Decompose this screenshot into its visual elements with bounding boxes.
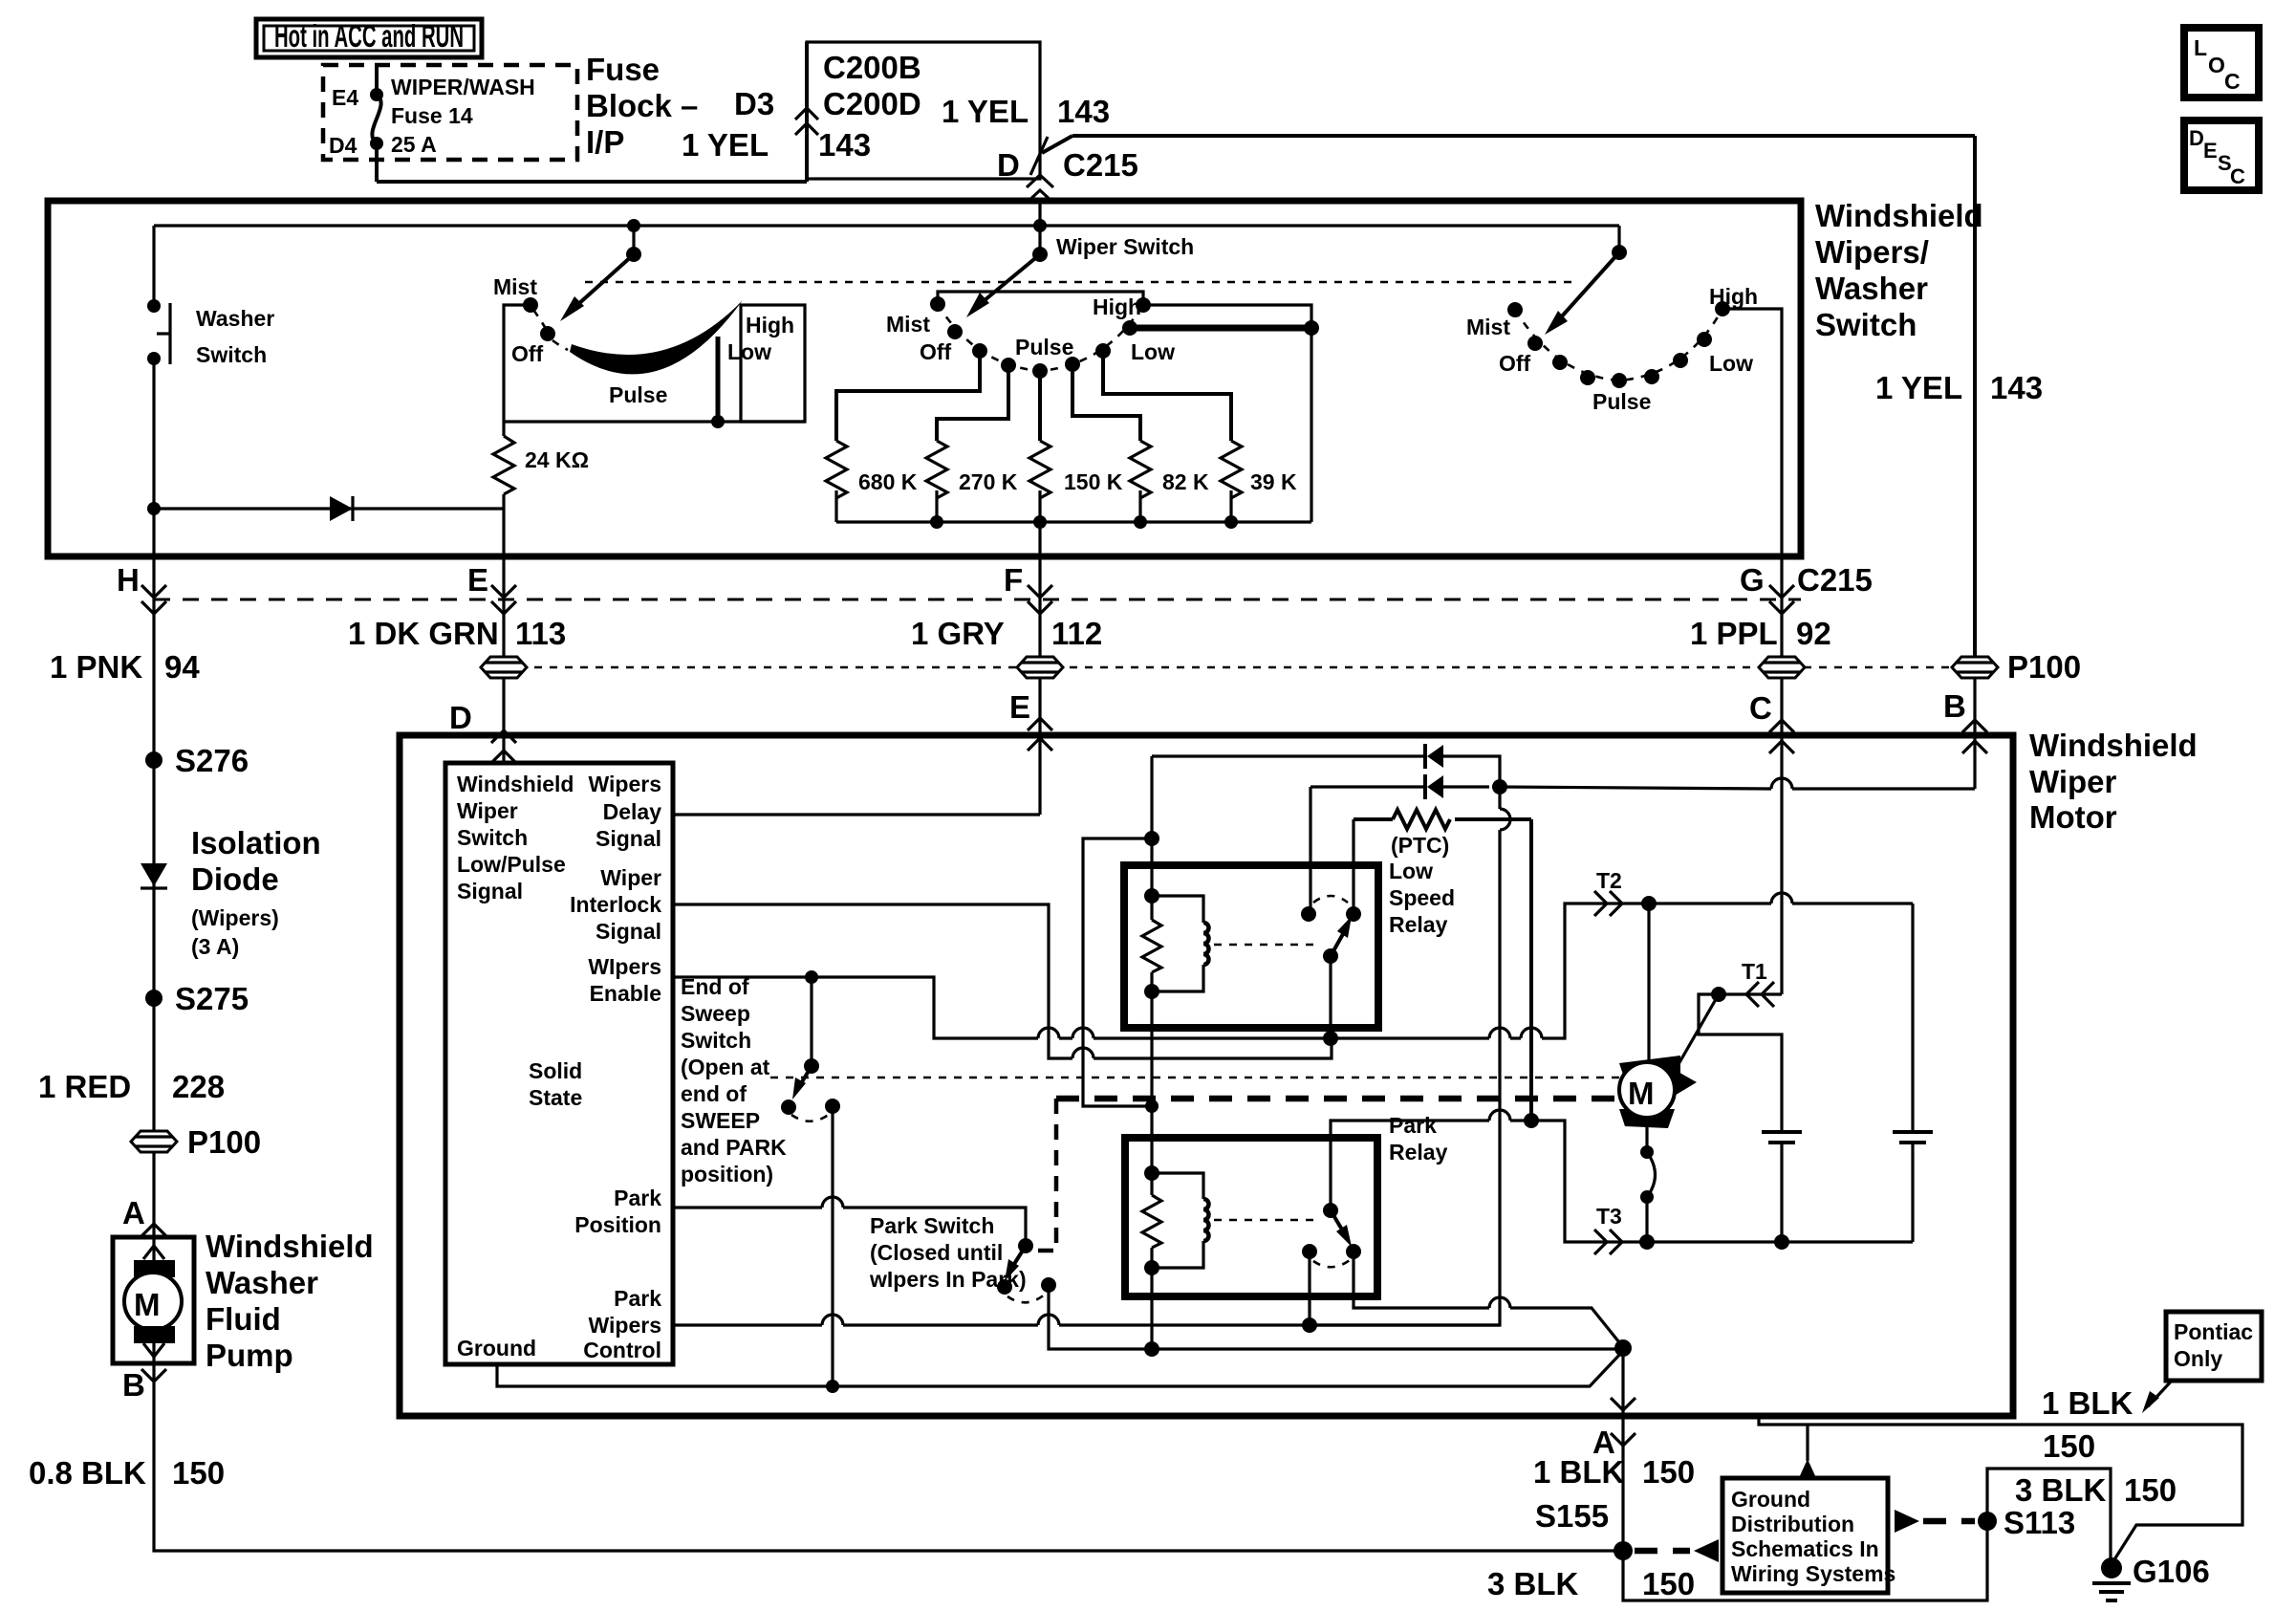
label T1 <box>1742 959 1774 1007</box>
wire Low contact switch1 <box>716 337 721 422</box>
label A pump <box>122 1195 166 1236</box>
svg-text:D: D <box>2189 126 2204 150</box>
svg-text:Mist: Mist <box>493 274 537 299</box>
arrow pontiac only <box>2142 1381 2172 1413</box>
inline connector on G wire <box>1759 657 1805 678</box>
LOC box <box>2184 28 2259 98</box>
svg-text:Relay: Relay <box>1389 912 1448 937</box>
svg-text:B: B <box>122 1367 145 1403</box>
node A bundle junction <box>1614 1339 1632 1357</box>
wire Mist-High link switch2 <box>938 292 1143 305</box>
node ground sweep junction <box>826 1380 839 1393</box>
wire S155 dashed to ground distribution <box>1635 1548 1690 1555</box>
svg-text:Wipers: Wipers <box>589 1313 661 1338</box>
svg-text:end of: end of <box>681 1081 747 1106</box>
park relay switch <box>1302 1203 1361 1267</box>
svg-text:1 BLK: 1 BLK <box>2042 1385 2134 1421</box>
label Windshield Washer Fluid Pump <box>206 1229 374 1373</box>
svg-text:Speed: Speed <box>1389 885 1455 910</box>
connector C215 dashed line <box>154 599 1801 601</box>
svg-text:Solid: Solid <box>529 1058 582 1083</box>
wire wipers enable <box>673 977 1331 1038</box>
node diode junction B feed <box>1492 779 1507 795</box>
resistor PTC <box>1354 810 1531 858</box>
wire wiper interlock signal <box>673 904 1332 1058</box>
svg-text:High: High <box>746 313 794 337</box>
svg-text:S155: S155 <box>1535 1498 1609 1534</box>
svg-text:S275: S275 <box>175 981 249 1016</box>
svg-text:Interlock: Interlock <box>570 892 661 917</box>
svg-text:C200D: C200D <box>823 86 921 121</box>
wire dashed to S113 <box>1923 1518 1975 1525</box>
svg-text:94: 94 <box>164 649 200 685</box>
label Windshield Wiper Motor <box>2029 728 2198 835</box>
hop control over park contact drop <box>1038 1315 1059 1325</box>
wire park relay NO contact to A bundle <box>1354 1252 1623 1347</box>
label T2 <box>1594 868 1622 916</box>
windshield wipers/washer switch outer box <box>48 201 1801 556</box>
inline connector P100 on B wire <box>1952 649 2081 685</box>
wire motor T2 lead <box>1647 903 1650 1064</box>
wire end of sweep to ground bus <box>831 1106 834 1386</box>
svg-text:143: 143 <box>1057 94 1110 129</box>
svg-text:Park Switch: Park Switch <box>870 1213 994 1238</box>
svg-text:C200B: C200B <box>823 50 921 85</box>
wiper switch 1 arm <box>560 226 641 321</box>
svg-text:1 RED: 1 RED <box>38 1069 131 1104</box>
dashed mechanical link wiper switches <box>585 281 1571 284</box>
svg-text:1 DK GRN: 1 DK GRN <box>348 616 499 651</box>
label low speed relay <box>1389 859 1455 937</box>
resistor 24 Kohm <box>493 422 589 509</box>
svg-text:1 PNK: 1 PNK <box>50 649 142 685</box>
thick pulse crescent switch1 <box>570 300 743 374</box>
node feed junction switch2 <box>1033 219 1047 232</box>
resistor 150K pulse center <box>1029 371 1123 529</box>
svg-text:Wiring Systems: Wiring Systems <box>1731 1561 1895 1586</box>
wire B motor terminal <box>1943 678 1987 789</box>
svg-text:WIPER/WASH: WIPER/WASH <box>391 75 535 99</box>
low speed relay switch <box>1301 896 1361 964</box>
svg-text:Switch: Switch <box>1815 307 1917 342</box>
label 1 YEL 143 at fuse wire <box>682 127 871 163</box>
wire diode2 corner to relay fixed contact <box>1309 787 1311 914</box>
dashed mechanical link motor thin <box>770 1077 1619 1079</box>
svg-text:S276: S276 <box>175 743 249 778</box>
resistor 270K <box>926 365 1018 529</box>
svg-text:E: E <box>467 562 488 598</box>
svg-text:E: E <box>2203 139 2218 163</box>
svg-text:Distribution: Distribution <box>1731 1512 1854 1536</box>
svg-text:State: State <box>529 1085 582 1110</box>
wire pump B to ground bus <box>154 1363 1623 1551</box>
svg-text:Wiper: Wiper <box>2029 764 2117 799</box>
wire T1 line <box>1699 994 1782 1132</box>
wire D into motor box <box>449 678 516 763</box>
svg-text:D: D <box>997 147 1020 183</box>
svg-text:0.8 BLK: 0.8 BLK <box>29 1455 146 1491</box>
svg-text:Washer: Washer <box>196 306 274 331</box>
svg-text:Off: Off <box>1499 351 1531 376</box>
wire G exit <box>1740 556 1873 658</box>
label 1 YEL 143 right side <box>1875 370 2043 405</box>
svg-text:Off: Off <box>920 339 952 364</box>
label park switch <box>869 1213 1027 1292</box>
wire High to right vertical switch2 <box>1143 305 1311 328</box>
svg-text:(Wipers): (Wipers) <box>191 905 279 930</box>
svg-text:Washer: Washer <box>1815 271 1928 306</box>
svg-text:Fluid: Fluid <box>206 1301 281 1337</box>
svg-text:Pulse: Pulse <box>609 382 667 407</box>
wire H exit <box>117 556 166 760</box>
svg-text:Signal: Signal <box>457 879 523 903</box>
svg-text:Switch: Switch <box>196 342 267 367</box>
svg-text:P100: P100 <box>187 1124 261 1160</box>
svg-text:3 BLK: 3 BLK <box>2015 1472 2107 1508</box>
connector arrow D C215 (double chevron up) <box>1027 175 1053 203</box>
svg-text:24 KΩ: 24 KΩ <box>525 447 589 472</box>
svg-text:Windshield: Windshield <box>1815 198 1983 233</box>
svg-text:wIpers In Park): wIpers In Park) <box>869 1267 1027 1292</box>
wire T3 line <box>1531 1121 1913 1242</box>
svg-text:Switch: Switch <box>681 1028 751 1053</box>
svg-text:150: 150 <box>2043 1428 2095 1464</box>
wiper switch 3 arm <box>1545 226 1627 335</box>
wire Mist to bus switch1 <box>504 305 531 422</box>
svg-text:Low: Low <box>1131 339 1175 364</box>
wire relay pivot to T2 node <box>1329 956 1332 1038</box>
wire 24K to E exit <box>502 509 505 556</box>
hop T2 line over B drop <box>1489 1028 1510 1038</box>
svg-text:position): position) <box>681 1162 773 1186</box>
node enable arm tap <box>805 970 818 984</box>
wiper switch 1 Off contact <box>511 326 555 366</box>
wire ground box feed with triangle <box>1798 1425 1817 1480</box>
dashed actuator low speed relay <box>1214 944 1319 947</box>
svg-text:Low: Low <box>1389 859 1433 883</box>
hop enable over coil feed <box>1072 1028 1094 1038</box>
connector C200B C200D box <box>807 42 1040 179</box>
svg-text:O: O <box>2208 53 2225 77</box>
diode interlock feed <box>1310 774 1489 799</box>
label Windshield Wipers/Washer Switch <box>1815 198 1983 342</box>
svg-text:Mist: Mist <box>1466 315 1510 339</box>
svg-text:Washer: Washer <box>206 1265 318 1300</box>
svg-text:150: 150 <box>1642 1566 1695 1601</box>
svg-text:82 K: 82 K <box>1162 469 1209 494</box>
svg-text:Wiper: Wiper <box>600 865 661 890</box>
park relay box <box>1125 1138 1377 1296</box>
label module left column <box>457 772 582 1361</box>
svg-text:150: 150 <box>1642 1454 1695 1490</box>
svg-text:113: 113 <box>515 616 566 651</box>
wire E motor terminal <box>1009 678 1052 815</box>
wire 1 BLK pontiac ground run <box>1759 1416 2242 1564</box>
svg-text:C: C <box>2230 164 2245 188</box>
inline connector on F wire <box>1017 657 1063 678</box>
wire D into switch box <box>1038 201 1041 226</box>
svg-text:C215: C215 <box>1063 147 1138 183</box>
svg-text:Control: Control <box>583 1338 661 1362</box>
hop B feed over C wire <box>1771 778 1792 789</box>
svg-text:Diode: Diode <box>191 861 279 897</box>
svg-text:G106: G106 <box>2133 1554 2210 1589</box>
node T3 motor junction <box>1639 1234 1655 1250</box>
label 1 BLK 150 at A <box>1533 1454 1695 1490</box>
wire S155 to S113 bottom link <box>1623 1521 1987 1600</box>
svg-text:WIpers: WIpers <box>588 954 661 979</box>
svg-text:Fuse: Fuse <box>586 52 660 87</box>
label end of sweep switch <box>681 974 787 1186</box>
wire pulse output to F exit <box>1038 522 1041 556</box>
label 1 PNK 94 <box>50 649 200 685</box>
ground G106 <box>2092 1554 2210 1600</box>
hop pivot feed over B drop <box>1489 1110 1510 1121</box>
svg-text:C215: C215 <box>1797 562 1873 598</box>
node feed junction switch1 <box>627 219 640 232</box>
wire through coils vertical <box>1150 991 1153 1173</box>
wire resistor bottom bus switch2 <box>836 520 1311 523</box>
svg-text:Park: Park <box>614 1286 661 1311</box>
svg-text:G: G <box>1740 562 1765 598</box>
windshield wiper motor box <box>400 735 2013 1416</box>
dashed actuator park relay <box>1214 1219 1319 1222</box>
svg-text:H: H <box>117 562 140 598</box>
svg-text:92: 92 <box>1796 616 1831 651</box>
svg-text:Signal: Signal <box>596 919 661 944</box>
capacitor C2 <box>1893 903 1933 1242</box>
svg-text:228: 228 <box>172 1069 225 1104</box>
module wiper switch low/pulse signal box <box>445 763 673 1364</box>
svg-text:E4: E4 <box>332 85 358 110</box>
svg-text:T1: T1 <box>1742 959 1767 984</box>
svg-text:C: C <box>2224 69 2241 94</box>
inline connector P100 on pump wire <box>131 998 261 1237</box>
arrow out ground distribution right <box>1895 1510 1919 1533</box>
dashed mechanical link motor heavy <box>1056 1096 1619 1102</box>
svg-text:B: B <box>1943 688 1966 724</box>
wire PTC left to relay moving contact <box>1352 819 1354 914</box>
svg-text:112: 112 <box>1051 616 1102 651</box>
svg-text:150: 150 <box>172 1455 225 1491</box>
svg-text:T2: T2 <box>1596 868 1622 893</box>
dashed link park switch <box>1028 1099 1056 1251</box>
hop T2 line over PTC drop <box>1521 1028 1542 1038</box>
svg-text:Hot in ACC and RUN: Hot in ACC and RUN <box>274 18 464 54</box>
hop T2 over C wire <box>1771 893 1792 903</box>
svg-text:Isolation: Isolation <box>191 825 321 860</box>
svg-text:T3: T3 <box>1596 1204 1622 1229</box>
svg-text:E: E <box>1009 689 1030 725</box>
label box Hot in ACC and RUN <box>256 18 482 57</box>
svg-text:(3 A): (3 A) <box>191 934 239 959</box>
node capacitor1 bottom junction <box>1774 1234 1789 1250</box>
wire coil feed to park relay coil <box>1083 838 1152 1106</box>
svg-text:Delay: Delay <box>603 799 662 824</box>
svg-text:Fuse 14: Fuse 14 <box>391 103 473 128</box>
svg-text:Pump: Pump <box>206 1338 293 1373</box>
svg-text:(Closed until: (Closed until <box>870 1240 1003 1265</box>
svg-text:143: 143 <box>818 127 871 163</box>
wire B junction down to relay contact <box>1310 787 1500 1325</box>
wire park position <box>673 1208 1026 1246</box>
hop park position over sweep drop <box>822 1197 843 1208</box>
DESC box <box>2184 120 2259 190</box>
wire bottom bus switch1 <box>504 420 805 423</box>
svg-text:39 K: 39 K <box>1250 469 1297 494</box>
svg-text:A: A <box>122 1195 145 1230</box>
svg-text:High: High <box>1093 294 1141 319</box>
wire T1 to motor brush <box>1675 994 1719 1071</box>
connector arrow D3 (double chevron up) <box>795 108 818 135</box>
park switch <box>997 1238 1056 1302</box>
label 1 YEL 143 inside C200 box <box>942 94 1110 129</box>
label Fuse Block - I/P <box>586 52 698 160</box>
wire wipers delay signal <box>673 813 1040 816</box>
svg-text:Low: Low <box>727 339 771 364</box>
svg-text:Pulse: Pulse <box>1015 335 1073 359</box>
svg-text:D4: D4 <box>329 133 357 158</box>
hop enable over interlock drop <box>1038 1028 1059 1038</box>
wire B feed line <box>1500 787 1975 789</box>
svg-text:SWEEP: SWEEP <box>681 1108 760 1133</box>
label park relay <box>1389 1113 1448 1165</box>
svg-text:Schematics In: Schematics In <box>1731 1536 1879 1561</box>
label module right column pins <box>570 772 661 1362</box>
svg-text:Switch: Switch <box>457 825 528 850</box>
hop control over sweep drop <box>822 1315 843 1325</box>
svg-text:(PTC): (PTC) <box>1391 833 1449 858</box>
hop NO line over B drop <box>1489 1297 1510 1308</box>
svg-text:Mist: Mist <box>886 312 930 337</box>
diode isolation (wipers) <box>141 760 321 998</box>
svg-text:Position: Position <box>574 1212 661 1237</box>
label 1 RED 228 <box>38 1069 225 1104</box>
node high/low junction switch2 <box>1304 320 1319 336</box>
svg-text:Wipers: Wipers <box>589 772 661 796</box>
svg-text:High: High <box>1709 284 1758 309</box>
wire park wipers control <box>673 1323 1500 1326</box>
svg-text:D3: D3 <box>734 86 774 121</box>
wire F exit <box>1004 556 1052 658</box>
relay coil park <box>1142 1165 1209 1275</box>
node S113 <box>1978 1505 2075 1540</box>
high/low box switch1 <box>741 305 805 422</box>
svg-text:Pulse: Pulse <box>1592 389 1651 414</box>
wire module ground <box>497 1351 1623 1386</box>
label 1 PPL 92 <box>1690 616 1831 651</box>
svg-text:143: 143 <box>1990 370 2043 405</box>
node coil feed junction <box>1145 1099 1159 1113</box>
wire 1 YEL 143 right feeder <box>1042 136 1975 658</box>
label T3 <box>1594 1204 1622 1254</box>
washer pump motor box <box>113 1237 194 1363</box>
svg-text:L: L <box>2194 35 2207 60</box>
svg-text:25 A: 25 A <box>391 132 437 157</box>
wire switch feed bus <box>154 226 1619 306</box>
node S155 <box>1535 1498 1633 1560</box>
node T2 motor junction <box>1641 896 1657 911</box>
svg-text:P100: P100 <box>2007 649 2081 685</box>
wiper switch 2 arm <box>966 226 1048 317</box>
wire right vertical to resistor bus switch2 <box>1310 328 1312 522</box>
svg-text:Wiper Switch: Wiper Switch <box>1056 234 1194 259</box>
wiper switch 1 Mist contact <box>493 274 538 313</box>
svg-text:D: D <box>449 700 472 735</box>
wiper switch 3 contacts <box>1466 284 1758 414</box>
node S275 <box>145 981 249 1016</box>
wire PTC right to park relay pivot feed <box>1529 819 1533 1121</box>
svg-text:1 YEL: 1 YEL <box>1875 370 1962 405</box>
wire park switch contact to A bundle <box>1049 1285 1623 1349</box>
svg-text:Block –: Block – <box>586 88 698 123</box>
svg-text:Ground: Ground <box>1731 1487 1810 1512</box>
fuse F14 symbol <box>370 65 383 150</box>
svg-text:1 YEL: 1 YEL <box>682 127 769 163</box>
svg-text:Relay: Relay <box>1389 1140 1448 1165</box>
wire park coil return to bundle <box>1150 1268 1153 1349</box>
svg-text:1 BLK: 1 BLK <box>1533 1454 1625 1490</box>
svg-text:Ground: Ground <box>457 1336 536 1361</box>
low speed relay box <box>1124 865 1378 1028</box>
inline connector on E wire <box>481 657 527 678</box>
diode delay feed <box>1152 744 1500 787</box>
hop B drop over PTC lead <box>1500 809 1510 830</box>
pontiac only box <box>2166 1312 2262 1381</box>
svg-text:Wipers/: Wipers/ <box>1815 234 1929 270</box>
svg-text:Off: Off <box>511 341 544 366</box>
svg-text:Park: Park <box>614 1186 661 1210</box>
svg-text:Signal: Signal <box>596 826 661 851</box>
resistor 39K <box>1103 351 1297 529</box>
relay coil low speed <box>1142 756 1209 999</box>
svg-text:Enable: Enable <box>590 981 661 1006</box>
svg-text:1 PPL: 1 PPL <box>1690 616 1778 651</box>
label 1 GRY 112 <box>911 616 1102 651</box>
svg-text:Low: Low <box>1709 351 1753 376</box>
svg-text:End of: End of <box>681 974 749 999</box>
svg-text:and PARK: and PARK <box>681 1135 787 1160</box>
label 3 BLK 150 below S155 <box>1487 1566 1695 1601</box>
svg-text:3 BLK: 3 BLK <box>1487 1566 1579 1601</box>
dashed throw arc switch1 <box>533 310 568 350</box>
wire washer switch to diode node <box>152 359 155 556</box>
wire park relay NC contact down <box>1308 1252 1310 1325</box>
arrow into ground distribution left <box>1694 1539 1719 1562</box>
svg-text:1 YEL: 1 YEL <box>942 94 1029 129</box>
wire park relay pivot feed <box>1331 1121 1531 1210</box>
fuse block dashed box <box>323 65 577 160</box>
node park relay contact B junction <box>1302 1317 1317 1333</box>
svg-text:150: 150 <box>2124 1472 2177 1508</box>
label 1 BLK 150 pontiac <box>2042 1385 2134 1464</box>
svg-text:Windshield: Windshield <box>2029 728 2198 763</box>
node low bus switch1 <box>711 415 725 428</box>
svg-text:(Open at: (Open at <box>681 1055 770 1079</box>
washer switch SW <box>147 299 274 367</box>
svg-text:Windshield: Windshield <box>457 772 574 796</box>
label B pump <box>122 1367 166 1403</box>
svg-text:C: C <box>1749 690 1772 726</box>
svg-text:680 K: 680 K <box>858 469 918 494</box>
svg-text:I/P: I/P <box>586 124 624 160</box>
dashed throw arc switch2 <box>938 304 1143 371</box>
svg-text:M: M <box>1628 1076 1655 1111</box>
wire S113 to G106 <box>1987 1469 2111 1564</box>
resistor 82K <box>1072 364 1209 529</box>
svg-text:Wiper: Wiper <box>457 798 518 823</box>
svg-text:Motor: Motor <box>2029 799 2117 835</box>
